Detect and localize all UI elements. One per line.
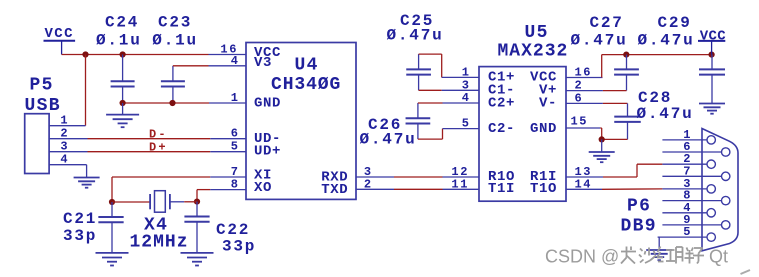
pin 9 of P6	[662, 224, 721, 226]
svg-text:1: 1	[462, 65, 469, 79]
pin 8 of P6	[662, 200, 721, 202]
svg-text:3: 3	[60, 140, 67, 154]
pin 2 of P5	[49, 138, 87, 140]
pin 16 of U5	[566, 77, 603, 79]
wire XO net (U4 pin 8 to crystal)	[197, 189, 210, 191]
pin 1 of P6	[662, 139, 707, 141]
svg-text:1: 1	[60, 114, 67, 128]
capacitor C26	[417, 103, 419, 118]
svg-text:C24: C24	[105, 13, 139, 31]
pin 11 of U5	[443, 188, 480, 190]
junction GND/C28	[599, 136, 605, 142]
wire D+ net (USB 3 to U4 UD+)	[88, 151, 211, 153]
svg-text:6: 6	[575, 91, 582, 105]
svg-text:T1I: T1I	[488, 181, 515, 197]
svg-text:14: 14	[575, 177, 593, 191]
svg-text:V3: V3	[254, 55, 272, 71]
svg-text:33p: 33p	[222, 237, 256, 255]
wire VCC down to USB pin 1	[85, 55, 87, 126]
connector P6 DB9 body	[702, 129, 738, 251]
svg-text:Ø.1u: Ø.1u	[152, 31, 198, 49]
svg-text:C27: C27	[590, 14, 624, 32]
wire GND rail to U4 pin 1	[123, 102, 209, 104]
svg-text:V-: V-	[539, 95, 557, 111]
svg-text:DB9: DB9	[621, 216, 657, 236]
junction C23/GND	[169, 100, 175, 106]
svg-text:11: 11	[451, 177, 469, 191]
svg-text:U4: U4	[295, 55, 319, 75]
svg-text:XO: XO	[254, 180, 272, 196]
wire D- net (USB 2 to U4 UD-)	[88, 138, 211, 140]
pin 3 of P6	[662, 188, 707, 190]
ground below C21	[96, 252, 129, 254]
svg-text:15: 15	[571, 115, 589, 129]
pin 4 of U5	[443, 102, 480, 104]
svg-text:C2+: C2+	[488, 95, 515, 111]
svg-text:GND: GND	[530, 121, 557, 137]
wire C26 bottom to U5 pin 5	[418, 138, 443, 140]
wire U5 pin 16 to VCC rail	[601, 55, 603, 78]
pin 3 of U5	[442, 89, 479, 91]
capacitor C24	[122, 55, 124, 82]
svg-text:5: 5	[231, 140, 238, 154]
svg-text:Ø.47u: Ø.47u	[637, 105, 694, 123]
ground below P6 pin 5	[646, 249, 672, 251]
wire C27 bottom to U5 pin 2	[603, 90, 627, 92]
svg-text:Ø.47u: Ø.47u	[387, 27, 444, 45]
pin 2 of U5	[566, 90, 603, 92]
svg-text:P5: P5	[30, 75, 54, 95]
junction C29/VCC rail	[709, 52, 715, 58]
svg-text:CSDN @: CSDN @	[545, 247, 619, 267]
svg-text:UD+: UD+	[254, 143, 281, 159]
svg-text:Ø.47u: Ø.47u	[360, 131, 417, 149]
capacitor C28	[603, 102, 628, 104]
svg-text:MAX232: MAX232	[498, 42, 569, 62]
svg-text:C22: C22	[216, 221, 250, 239]
svg-text:T1O: T1O	[530, 181, 557, 197]
pin 4 of P5	[49, 164, 87, 166]
wire U5 pin 14 to P6 pin 3	[602, 188, 662, 190]
svg-text:C21: C21	[63, 210, 97, 228]
junction C27/VCC rail	[623, 52, 629, 58]
junction VCC/C24	[120, 51, 126, 57]
wire C23 to U4 pin 4	[173, 65, 209, 67]
pin 12 of U5	[443, 176, 480, 178]
svg-text:P6: P6	[627, 197, 651, 217]
op IC U4 CH340G body	[246, 43, 356, 200]
pin 4 of P6	[662, 212, 707, 214]
pin 5 of U5	[443, 128, 480, 130]
capacitor C25	[418, 54, 420, 69]
watermark CJK glyphs	[621, 247, 704, 264]
ground below C29	[699, 103, 725, 105]
wire USB pin 4 to ground	[86, 165, 88, 178]
connector P5 USB	[25, 114, 49, 174]
junction XI/C21/X4	[109, 199, 115, 205]
capacitor C22	[196, 202, 198, 217]
junction XO/C22/X4	[194, 199, 200, 205]
svg-text:16: 16	[575, 66, 593, 80]
capacitor C21	[111, 202, 113, 217]
svg-text:4: 4	[462, 91, 469, 105]
pin 2 of P6	[662, 163, 707, 165]
wire RXD (U4 pin 3 to U5 pin 12)	[356, 176, 394, 178]
wire U5 pin 13 to P6 pin 2	[603, 176, 637, 178]
pin 14 of U5	[566, 188, 602, 190]
svg-text:5: 5	[462, 117, 469, 131]
capacitor C27	[626, 55, 628, 70]
svg-text:C23: C23	[158, 13, 192, 31]
pin 5 of P6 with ground wire	[658, 236, 707, 238]
svg-text:C2-: C2-	[488, 121, 515, 137]
svg-text:Ø.47u: Ø.47u	[638, 32, 695, 50]
svg-text:Ø.47u: Ø.47u	[571, 32, 628, 50]
ground below P5	[74, 177, 100, 179]
svg-text:USB: USB	[25, 96, 61, 116]
capacitor C23	[172, 66, 174, 82]
pin 13 of U5	[566, 176, 603, 178]
capacitor C29	[711, 55, 713, 70]
ground below U5 pin 15	[601, 139, 603, 152]
svg-text:4: 4	[60, 153, 67, 167]
wire U5 pin 15 to ground	[600, 127, 602, 129]
wire C26 top to U5 pin 4	[418, 102, 443, 104]
svg-text:D+: D+	[149, 140, 168, 154]
pin 1 of U5	[442, 76, 479, 78]
svg-text:D-: D-	[149, 127, 168, 141]
svg-text:33p: 33p	[63, 227, 97, 245]
svg-text:8: 8	[231, 178, 238, 192]
ground below C22	[181, 252, 214, 254]
pin 6 of P6	[662, 151, 721, 153]
pin 6 of U5	[566, 102, 603, 104]
svg-text:5: 5	[683, 225, 690, 239]
svg-text:Qt: Qt	[709, 247, 728, 267]
wire C25 bottom to U5 pin 3	[419, 89, 442, 91]
svg-text:12MHz: 12MHz	[130, 232, 189, 252]
svg-text:6: 6	[231, 127, 238, 141]
svg-text:TXD: TXD	[321, 182, 348, 198]
wire TXD (U4 pin 2 to U5 pin 11)	[356, 188, 394, 190]
pin 15 of U5	[566, 127, 600, 129]
junction VCC/USB pin1	[82, 51, 88, 57]
svg-text:2: 2	[60, 127, 67, 141]
wire VCC rail to U4 pin 16	[62, 54, 209, 56]
junction C24/GND	[120, 100, 126, 106]
crystal X4	[112, 201, 150, 203]
wire C28 bottom to ground node	[602, 138, 628, 140]
svg-text:Ø.1u: Ø.1u	[96, 31, 142, 49]
ground below C24	[122, 103, 124, 115]
svg-text:GND: GND	[254, 96, 281, 112]
watermark tick mark	[741, 270, 751, 274]
svg-text:1: 1	[231, 91, 238, 105]
svg-text:VCC: VCC	[700, 29, 727, 45]
wire XI net (U4 pin 7 to crystal)	[112, 176, 210, 178]
svg-text:CH34ØG: CH34ØG	[271, 75, 341, 95]
svg-text:C29: C29	[658, 14, 692, 32]
svg-text:4: 4	[231, 54, 238, 68]
wire C25 top to U5 pin 1	[419, 53, 442, 55]
pin 3 of P5	[49, 151, 87, 153]
op IC U5 MAX232 body	[479, 67, 566, 202]
pin 7 of P6	[662, 175, 721, 177]
svg-text:U5: U5	[525, 23, 549, 43]
